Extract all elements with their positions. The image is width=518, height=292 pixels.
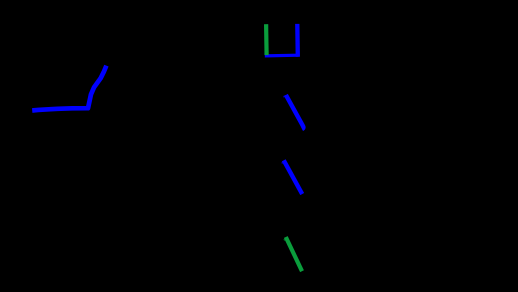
- green vertical line over left side of U: [264, 24, 269, 55]
- faint start-flare of blue dash 1: [283, 96, 286, 97]
- faint start-flare of green dash: [284, 239, 287, 241]
- green dash (lower diagonal): [286, 237, 302, 271]
- blue dash 1 (upper diagonal): [286, 95, 304, 129]
- blue U shape: [265, 24, 299, 57]
- blue checkmark stroke (horizontal then rising diagonal): [32, 66, 106, 111]
- blue dash 2 (middle diagonal): [284, 160, 303, 194]
- black wedge trimming checkmark left tip: [31, 105, 36, 109]
- faint start-flare of blue dash 2: [282, 162, 285, 163]
